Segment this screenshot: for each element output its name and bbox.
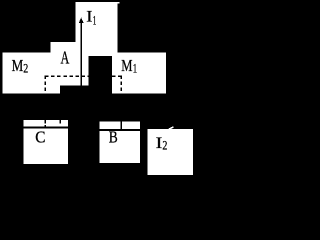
svg-text:2: 2 bbox=[162, 137, 167, 152]
block C bbox=[24, 120, 69, 164]
svg-text:I: I bbox=[86, 9, 92, 26]
svg-text:B: B bbox=[109, 127, 118, 146]
arrow I1 head bbox=[79, 18, 84, 23]
block step A level bbox=[51, 42, 118, 53]
lid line B bbox=[100, 129, 140, 131]
tower top corner pixel bbox=[118, 2, 120, 4]
gap notch between A and M1 bbox=[89, 56, 112, 93]
dashed right tick on B bbox=[120, 121, 122, 129]
svg-text:1: 1 bbox=[133, 61, 137, 76]
block B bbox=[100, 121, 140, 163]
svg-text:2: 2 bbox=[23, 61, 28, 76]
svg-text:M: M bbox=[121, 56, 132, 75]
arrow I1 shaft bbox=[80, 21, 82, 86]
dashed left edge bbox=[44, 76, 46, 94]
block I2 bbox=[148, 129, 193, 175]
gap step under A bbox=[60, 86, 88, 94]
svg-text:M: M bbox=[12, 56, 24, 75]
dashed left tick on C bbox=[44, 120, 46, 127]
dashed right edge bbox=[120, 76, 122, 94]
lid line C bbox=[24, 127, 69, 129]
dashed top edge bbox=[45, 75, 122, 77]
svg-text:1: 1 bbox=[93, 12, 97, 27]
svg-text:I: I bbox=[156, 135, 163, 152]
tick I2 bbox=[168, 127, 174, 130]
block band M2-M1 bbox=[2, 53, 166, 94]
dashed mid tick on C bbox=[59, 120, 61, 124]
svg-text:C: C bbox=[35, 128, 45, 147]
block tower I1 bbox=[76, 2, 118, 42]
svg-text:A: A bbox=[61, 47, 70, 67]
